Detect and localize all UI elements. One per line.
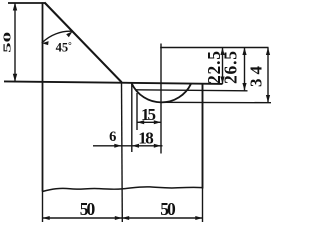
wavy break line bbox=[43, 187, 203, 192]
arrow bottom-50b left bbox=[122, 216, 129, 220]
extension vertical x=131.8 bbox=[131, 82, 133, 152]
dim line 22.5 bbox=[222, 48, 224, 85]
groove arc bbox=[132, 84, 191, 103]
arrow 50-left bottom (down) bbox=[13, 74, 17, 82]
extension x=42.5 below break bbox=[42, 192, 44, 223]
arrow 50-left top (up) bbox=[13, 3, 17, 11]
top edge / extension line bbox=[8, 2, 45, 4]
extension vertical x=122 (chamfer foot, bottom dims) bbox=[121, 82, 124, 222]
arrow 26.5 bottom (down) bbox=[242, 83, 246, 91]
arrow 6 left (outside, pointing right) bbox=[114, 144, 121, 148]
svg-text:50: 50 bbox=[160, 199, 176, 219]
extension x=202.5 below break bbox=[202, 188, 204, 222]
arrow 22.5 top (up) bbox=[220, 48, 224, 56]
arrow 34 bottom (down) bbox=[266, 95, 270, 103]
arrow 15 left bbox=[137, 120, 144, 124]
svg-text:15: 15 bbox=[141, 105, 156, 124]
arrow bottom-50a left bbox=[43, 216, 50, 220]
extension vertical x=161 bbox=[160, 44, 162, 154]
arrow 26.5 top (up) bbox=[242, 48, 246, 56]
dim line 26.5 bbox=[244, 48, 246, 91]
arrow 15 right bbox=[154, 120, 161, 124]
arrow 22.5 bottom (down) bbox=[220, 77, 224, 85]
arrow 34 top (up) bbox=[266, 48, 270, 56]
arrow 45deg at vertical line bbox=[42, 41, 49, 45]
45 deg chamfer diagonal bbox=[45, 3, 122, 83]
arrow 45deg at diagonal bbox=[66, 31, 72, 37]
svg-text:26.5: 26.5 bbox=[221, 51, 241, 84]
extension horizontal y=90 (depth 26.5) bbox=[136, 90, 248, 91]
svg-text:50: 50 bbox=[80, 199, 96, 219]
dim line 50 left vertical bbox=[14, 3, 16, 82]
arrow bottom-50a right bbox=[115, 216, 122, 220]
svg-text:6: 6 bbox=[109, 129, 116, 145]
arrow 6 right / 18 left (pointing left) bbox=[132, 144, 139, 148]
dim line bottom 50+50 bbox=[43, 217, 203, 219]
datum line y=47.5 bbox=[160, 47, 268, 49]
extension vertical x=137 (short, for 15) bbox=[136, 93, 138, 130]
arrow bottom-50b right bbox=[195, 216, 202, 220]
45 deg angle arc bbox=[42, 31, 73, 43]
dim line 15 bbox=[137, 121, 161, 123]
svg-text:18: 18 bbox=[138, 129, 154, 148]
dim line 6 and 18 bbox=[93, 145, 163, 147]
extension horizontal y=102.5 (depth 34 / arc bottom) bbox=[161, 101, 271, 103]
arrowheads bbox=[13, 3, 270, 221]
svg-text:50: 50 bbox=[1, 32, 13, 53]
left edge of part bbox=[42, 2, 44, 191]
surface line y=82 bbox=[4, 81, 223, 84]
dim line 34 bbox=[267, 48, 269, 103]
arrow 18 right bbox=[154, 144, 161, 148]
right edge of part bbox=[202, 84, 204, 189]
